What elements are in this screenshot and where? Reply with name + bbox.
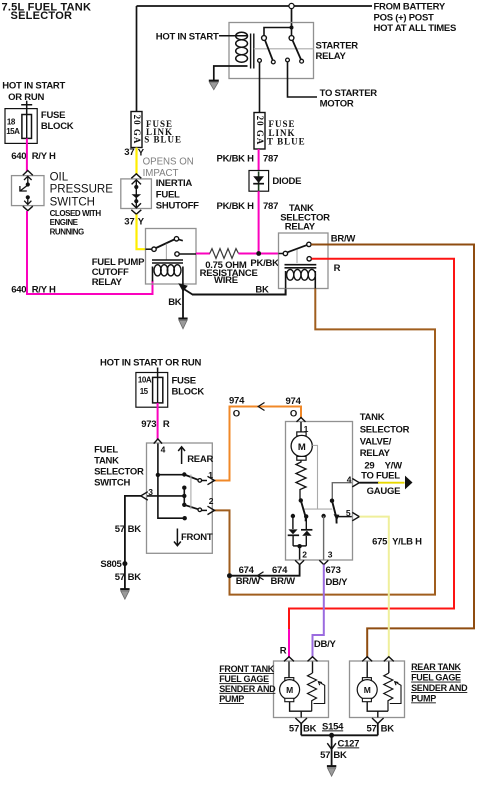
contact circle fixed R (selector relay) bbox=[307, 257, 311, 261]
fuse link F1 box (20 GA S BLUE) bbox=[131, 112, 142, 148]
label FUSE LINK S BLUE bbox=[144, 119, 182, 144]
svg-text:PRESSURE: PRESSURE bbox=[50, 184, 114, 196]
wire BK diagonal bbox=[183, 289, 193, 295]
wire 974 O feed (orange) bbox=[215, 407, 302, 481]
wire feed branch to blade 1 bbox=[158, 474, 184, 476]
svg-text:640: 640 bbox=[11, 284, 26, 295]
svg-text:15A: 15A bbox=[6, 127, 20, 136]
svg-text:674: 674 bbox=[239, 565, 255, 576]
svg-text:R: R bbox=[163, 419, 170, 430]
front sender wiper arrow bbox=[314, 682, 325, 704]
svg-text:10A: 10A bbox=[138, 376, 152, 385]
wire PK/BK output (magenta) to resistor bbox=[196, 253, 210, 255]
svg-text:DIODE: DIODE bbox=[272, 176, 301, 187]
contact circle (cutoff relay feed) bbox=[152, 247, 156, 251]
svg-text:REAR TANK: REAR TANK bbox=[411, 662, 461, 672]
connector chevron pin 5 bbox=[352, 512, 359, 520]
svg-text:SELECTOR: SELECTOR bbox=[11, 10, 73, 22]
svg-text:O: O bbox=[233, 409, 240, 420]
label 37 Y (upper) bbox=[124, 147, 144, 159]
svg-text:HOT IN START: HOT IN START bbox=[156, 31, 219, 42]
wire 973 R fuse to selector switch (magenta) bbox=[157, 403, 159, 440]
rear tank box bbox=[350, 661, 405, 718]
svg-text:57: 57 bbox=[320, 750, 330, 761]
switch blade (selector relay) bbox=[287, 245, 306, 252]
fuse block 2 box bbox=[136, 373, 168, 408]
wire tee to contact 2 bbox=[291, 28, 293, 36]
fuse block 1 box bbox=[5, 109, 37, 144]
wire 640 oil switch to cutoff relay coil (magenta) bbox=[27, 211, 153, 294]
wire BK ground branch bbox=[182, 290, 184, 318]
label 18 15A bbox=[6, 118, 20, 137]
wire relay armature link (gray) bbox=[254, 48, 314, 50]
svg-text:HOT IN START: HOT IN START bbox=[2, 81, 65, 92]
resistor (valve coil) zigzag bbox=[296, 460, 306, 500]
wire coil bottom lead bbox=[214, 66, 248, 80]
wire R red loop to front tank bbox=[289, 259, 454, 630]
valve blade right contact wedge bbox=[334, 514, 340, 520]
contact stub (cutoff relay fixed) bbox=[179, 240, 183, 241]
valve switch blade right bbox=[332, 501, 337, 524]
svg-text:FRONT: FRONT bbox=[181, 532, 213, 543]
tank selector relay K2 box bbox=[279, 233, 329, 289]
label 57 BK (rear) bbox=[367, 724, 395, 735]
label FRONT TANK FUEL GAGE SENDER AND PUMP bbox=[219, 664, 276, 704]
svg-text:675: 675 bbox=[372, 537, 388, 548]
node dot feed bbox=[156, 473, 160, 477]
wire rail to pin 2 (valve) bbox=[299, 546, 301, 559]
node contact dot left diode branch bbox=[291, 514, 295, 518]
svg-text:BK: BK bbox=[168, 297, 182, 308]
svg-text:SWITCH: SWITCH bbox=[94, 478, 130, 489]
svg-text:PUMP: PUMP bbox=[411, 693, 436, 703]
node valve blade pivot left bbox=[299, 498, 303, 502]
connector C127 chevron bbox=[327, 743, 336, 749]
svg-text:FUEL: FUEL bbox=[94, 445, 118, 456]
connector chevron (rear tank bottom) bbox=[372, 718, 384, 724]
svg-text:PK/BK H: PK/BK H bbox=[216, 201, 254, 212]
node dot bar top bbox=[182, 486, 186, 490]
wire 29 Y/W to fuel gauge bbox=[360, 476, 413, 490]
wire rear tank to S154 rail bbox=[377, 724, 379, 736]
wire armature link gray (selector relay) bbox=[296, 250, 298, 264]
wire stub to contact (selector relay) bbox=[279, 253, 284, 255]
wire battery feed top bbox=[137, 5, 373, 7]
svg-text:FROM BATTERY: FROM BATTERY bbox=[374, 1, 446, 12]
svg-text:PUMP: PUMP bbox=[219, 694, 244, 704]
svg-text:TANK: TANK bbox=[94, 456, 119, 467]
svg-text:R/Y H: R/Y H bbox=[32, 151, 56, 162]
svg-text:SELECTOR: SELECTOR bbox=[360, 425, 410, 436]
connector chevron (inertia bottom) bbox=[131, 210, 141, 214]
wire front pump feed bbox=[288, 662, 290, 678]
svg-text:4: 4 bbox=[161, 445, 166, 455]
svg-text:BR/W: BR/W bbox=[236, 576, 261, 587]
label 29 Y/W bbox=[364, 461, 402, 472]
svg-text:PK/BK H: PK/BK H bbox=[216, 153, 254, 164]
svg-text:57: 57 bbox=[289, 724, 299, 735]
label FUSE BLOCK 2 bbox=[172, 376, 205, 398]
wire front sender feed bbox=[312, 662, 314, 674]
contact circle upper 1 bbox=[262, 36, 267, 41]
svg-text:ENGINE: ENGINE bbox=[50, 218, 79, 227]
switch blade (cutoff relay) bbox=[156, 240, 174, 249]
wire R magenta tail at front tank bbox=[288, 629, 290, 658]
svg-text:673: 673 bbox=[326, 565, 341, 576]
svg-text:FUEL GAGE: FUEL GAGE bbox=[411, 673, 461, 683]
wire pin 3 to S805 ground bbox=[125, 496, 142, 589]
fuel tank selector switch S3 box bbox=[147, 443, 213, 553]
svg-text:57: 57 bbox=[115, 572, 125, 583]
label STARTER RELAY bbox=[316, 41, 359, 62]
svg-text:57: 57 bbox=[115, 524, 125, 535]
wire HOT IN START lead to coil bbox=[219, 35, 248, 37]
node dot blade 1 pivot bbox=[182, 472, 186, 476]
label FRONT with arrow bbox=[174, 529, 213, 546]
connector chevron (oil switch top) bbox=[23, 171, 33, 176]
wire valve feed to motor bbox=[300, 422, 302, 432]
svg-text:640: 640 bbox=[11, 151, 26, 162]
svg-text:M: M bbox=[364, 685, 371, 695]
svg-text:15: 15 bbox=[140, 387, 149, 396]
motor M2 (front pump) bbox=[280, 678, 300, 702]
wire coil left lead (selector relay) bbox=[285, 271, 287, 289]
node S154 splice bbox=[329, 733, 334, 738]
svg-text:973: 973 bbox=[141, 419, 156, 430]
wire rear sender feed bbox=[388, 662, 390, 674]
svg-text:BLOCK: BLOCK bbox=[41, 121, 74, 132]
connector chevron (oil switch bottom) bbox=[23, 206, 33, 211]
svg-text:RELAY: RELAY bbox=[360, 448, 391, 459]
node relay feed tee bbox=[290, 26, 294, 30]
node dot L end bbox=[183, 516, 187, 520]
svg-text:CLOSED WITH: CLOSED WITH bbox=[50, 209, 102, 218]
svg-text:2: 2 bbox=[302, 550, 307, 560]
diode CR3 (right, pointing up) bbox=[301, 516, 312, 546]
connector chevron pin 4 bbox=[352, 479, 359, 487]
diode CR2 (left, pointing down) bbox=[288, 529, 299, 535]
wire 37 Y fuse link to inertia switch (yellow) bbox=[135, 148, 137, 176]
label INERTIA FUEL SHUTOFF bbox=[156, 178, 199, 211]
svg-text:POS (+) POST: POS (+) POST bbox=[374, 13, 435, 24]
wire coil right lead (selector relay) bbox=[314, 271, 316, 289]
svg-text:RELAY: RELAY bbox=[92, 277, 123, 288]
svg-text:GAUGE: GAUGE bbox=[367, 486, 401, 497]
svg-text:FUEL: FUEL bbox=[156, 189, 180, 200]
svg-text:BLOCK: BLOCK bbox=[172, 386, 205, 397]
terminal circle 1 bbox=[258, 59, 262, 63]
title bbox=[2, 1, 92, 22]
wire blade1 to pin 1 bbox=[202, 480, 208, 482]
label FROM BATTERY bbox=[374, 1, 457, 34]
switch blade 2 (FRONT) bbox=[184, 505, 198, 509]
resistor rear sender zigzag bbox=[384, 673, 393, 711]
tank selector valve/relay box bbox=[286, 422, 353, 561]
svg-text:TANK: TANK bbox=[360, 412, 385, 423]
oil pressure switch symbol bbox=[20, 176, 32, 204]
connector chevron (rear tank pin Y/LB) bbox=[384, 657, 394, 662]
svg-text:TO FUEL: TO FUEL bbox=[361, 471, 400, 482]
label PK/BK H 787 (lower) bbox=[216, 201, 278, 212]
node dot bar mid bbox=[182, 494, 186, 498]
label 974 O (right) bbox=[286, 396, 302, 419]
resistor front sender zigzag bbox=[308, 673, 317, 711]
connector chevron (inertia top) bbox=[131, 174, 141, 179]
svg-text:S805: S805 bbox=[100, 559, 122, 570]
label 675 Y/LB H bbox=[372, 537, 422, 548]
starter relay coil bbox=[236, 32, 254, 68]
svg-text:18: 18 bbox=[7, 118, 16, 127]
ground (cutoff relay) bbox=[178, 319, 187, 329]
rear sender wiper arrow bbox=[390, 682, 401, 704]
svg-text:C127: C127 bbox=[338, 738, 360, 749]
motor M3 (rear pump) bbox=[357, 678, 377, 702]
diode CR1 box bbox=[249, 171, 269, 192]
wire S154 ground rail bbox=[301, 734, 378, 736]
contact circle output (cutoff relay) bbox=[175, 252, 179, 256]
ground (C127) bbox=[327, 766, 336, 776]
wire switch link gray bbox=[190, 475, 192, 510]
wire 675 Y/LB to rear tank (pale yellow) bbox=[360, 517, 389, 658]
svg-text:SWITCH: SWITCH bbox=[50, 197, 95, 209]
blade 1 tip circle bbox=[271, 60, 275, 64]
label FUSE BLOCK 1 bbox=[41, 110, 74, 132]
wire feed into fuse block 2 bbox=[157, 368, 159, 378]
node dot bar bottom bbox=[182, 503, 186, 507]
wire 673 DB/Y valve pin3 to front tank (violet) bbox=[313, 565, 324, 659]
node contact dot right diode branch bbox=[304, 514, 308, 518]
svg-text:WIRE: WIRE bbox=[214, 275, 238, 286]
coil loops (cutoff relay) bbox=[154, 265, 181, 276]
inertia fuel shutoff S2 box bbox=[121, 179, 152, 209]
label 674 BR/W (right) bbox=[271, 565, 296, 587]
label REAR with arrow bbox=[178, 447, 213, 465]
node 674 junction bbox=[227, 573, 232, 578]
svg-text:INERTIA: INERTIA bbox=[156, 178, 193, 189]
wire 37 Y inertia to cutoff relay (yellow) bbox=[137, 215, 147, 250]
svg-text:RELAY: RELAY bbox=[316, 51, 347, 62]
svg-text:674: 674 bbox=[272, 565, 288, 576]
svg-text:VALVE/: VALVE/ bbox=[360, 437, 392, 448]
svg-text:1: 1 bbox=[208, 470, 213, 480]
wire starter relay to fuse link T bbox=[259, 63, 261, 113]
svg-text:FRONT TANK: FRONT TANK bbox=[219, 664, 275, 674]
arrow on 974 wire bbox=[258, 403, 264, 411]
fuse F3 symbol bbox=[153, 377, 163, 403]
label OPENS ON IMPACT bbox=[143, 156, 194, 179]
svg-text:BK: BK bbox=[128, 572, 142, 583]
label HOT IN START OR RUN (left) bbox=[2, 81, 65, 104]
connector chevron (front tank pin DB/Y) bbox=[308, 657, 318, 662]
svg-text:R: R bbox=[334, 263, 341, 274]
label 57 BK (bottom) bbox=[320, 750, 347, 761]
label 37 Y (lower) bbox=[124, 217, 144, 228]
diode CR1 symbol bbox=[253, 172, 264, 191]
connector chevron (front tank pin R) bbox=[284, 657, 294, 662]
connector chevron pin 3 (left) bbox=[141, 492, 148, 500]
label REAR TANK FUEL GAGE SENDER AND PUMP bbox=[411, 662, 468, 703]
wire to starter motor bbox=[288, 62, 318, 97]
arrow on 674 wire bbox=[257, 572, 263, 580]
label 10A 15 bbox=[138, 376, 152, 397]
label 57 BK (pin3) bbox=[115, 524, 142, 535]
wire front tank bottom rail bbox=[290, 702, 312, 718]
connector chevron (valve top) bbox=[297, 418, 306, 422]
label TANK SELECTOR RELAY bbox=[280, 203, 330, 233]
wire left diode to rail bbox=[292, 536, 294, 546]
svg-text:O: O bbox=[290, 408, 297, 419]
svg-text:RUNNING: RUNNING bbox=[50, 228, 84, 237]
svg-text:PK/BK: PK/BK bbox=[250, 258, 279, 269]
fuse link F2 box (20 GA T BLUE) bbox=[254, 113, 265, 150]
blade 2 tip circle bbox=[300, 59, 304, 63]
connector chevron (rear tank pin BR/W) bbox=[362, 657, 372, 662]
svg-text:OIL: OIL bbox=[50, 171, 69, 183]
svg-text:SENDER AND: SENDER AND bbox=[411, 683, 468, 693]
svg-text:Y/LB H: Y/LB H bbox=[392, 537, 422, 548]
wire blade2 to pin 2 bbox=[202, 509, 208, 511]
svg-text:MOTOR: MOTOR bbox=[320, 98, 354, 109]
connector chevron pin 2 bbox=[208, 506, 215, 514]
ground (starter relay coil) bbox=[209, 81, 219, 90]
svg-text:HOT IN START OR RUN: HOT IN START OR RUN bbox=[100, 358, 202, 369]
svg-text:20 GA: 20 GA bbox=[255, 116, 265, 146]
wire BR/W brown loop to rear tank bbox=[311, 245, 474, 659]
label FUEL TANK SELECTOR SWITCH bbox=[94, 445, 144, 489]
svg-text:Y: Y bbox=[138, 217, 145, 228]
svg-text:20 GA: 20 GA bbox=[132, 115, 142, 145]
label FUEL PUMP CUTOFF RELAY bbox=[92, 257, 145, 288]
resistor 0.75 ohm zigzag bbox=[210, 249, 239, 259]
wire feed into fuse block 1 bbox=[21, 101, 32, 115]
svg-text:974: 974 bbox=[229, 396, 245, 407]
label TANK SELECTOR VALVE/RELAY bbox=[360, 412, 410, 459]
wire pin 3 to bar bbox=[147, 495, 184, 497]
label 640 R/Y H (lower) bbox=[11, 284, 56, 295]
label 57 BK (below S805) bbox=[115, 572, 142, 583]
svg-text:T BLUE: T BLUE bbox=[267, 137, 306, 147]
label 57 BK (front) bbox=[289, 724, 317, 735]
coil core (cutoff relay) bbox=[152, 260, 183, 263]
label 0.75 OHM RESISTANCE WIRE bbox=[200, 260, 258, 286]
wire 640 R/Y fuse to oil switch (magenta) bbox=[26, 138, 28, 171]
label 673 DB/Y bbox=[326, 565, 349, 588]
svg-text:BK: BK bbox=[381, 724, 395, 735]
svg-text:BK: BK bbox=[128, 524, 142, 535]
fuse F1 symbol bbox=[22, 115, 32, 139]
coil loops (selector relay) bbox=[287, 269, 316, 280]
svg-text:BK: BK bbox=[333, 750, 347, 761]
svg-text:SELECTOR: SELECTOR bbox=[94, 467, 144, 478]
connector chevron (valve pin 2 bottom) bbox=[295, 560, 304, 564]
wire rear pump feed bbox=[366, 662, 368, 678]
wire BK to tank selector relay coil bbox=[192, 289, 286, 295]
node valve blade pivot right bbox=[330, 499, 334, 503]
svg-text:OPENS ON: OPENS ON bbox=[143, 156, 194, 167]
fuel pump cutoff relay K1 box bbox=[146, 229, 197, 285]
node diode rail junction bbox=[297, 544, 301, 548]
wire stub to contact (cutoff relay) bbox=[146, 248, 152, 250]
connector chevron (valve pin 3 bottom) bbox=[319, 560, 328, 564]
switch blade 2 bbox=[293, 40, 301, 59]
svg-text:RELAY: RELAY bbox=[285, 222, 316, 233]
svg-text:2: 2 bbox=[209, 496, 214, 506]
node contact dot pin3 branch bbox=[321, 514, 325, 518]
svg-text:R: R bbox=[280, 646, 287, 657]
label PK/BK H 787 (upper) bbox=[216, 153, 278, 164]
wire diode rail bbox=[293, 545, 306, 547]
svg-text:BR/W: BR/W bbox=[331, 234, 356, 245]
svg-text:57: 57 bbox=[367, 724, 377, 735]
blade 1 tip circle bbox=[198, 479, 202, 483]
svg-text:3: 3 bbox=[328, 550, 333, 560]
svg-text:SENDER AND: SENDER AND bbox=[219, 684, 276, 694]
svg-text:SHUTOFF: SHUTOFF bbox=[156, 201, 199, 212]
contact circle fixed (cutoff relay) bbox=[174, 237, 178, 241]
svg-text:4: 4 bbox=[347, 475, 352, 485]
wire front tank to S154 rail bbox=[300, 724, 302, 736]
front tank box bbox=[274, 661, 329, 718]
wire coil left lead (cutoff relay) bbox=[152, 267, 154, 282]
wire left drop to fuse link S bbox=[136, 6, 138, 112]
svg-text:S154: S154 bbox=[322, 721, 344, 732]
starter relay U1 box bbox=[229, 23, 314, 79]
svg-text:787: 787 bbox=[263, 201, 278, 212]
wire pin 3 gray drop (valve) bbox=[323, 516, 325, 560]
svg-text:37: 37 bbox=[124, 147, 134, 158]
node S805 splice bbox=[122, 561, 127, 566]
wire 674 selector relay coil brown loop bbox=[213, 289, 435, 595]
wire contact to box edge (cutoff relay output) bbox=[179, 253, 196, 255]
label 974 O (left) bbox=[229, 396, 245, 420]
connector chevron pin 1 bbox=[208, 476, 215, 484]
svg-text:M: M bbox=[298, 442, 306, 453]
wire left diode branch bbox=[292, 516, 294, 529]
wire pin 5 stub bbox=[338, 516, 352, 518]
svg-text:FUEL GAGE: FUEL GAGE bbox=[219, 674, 269, 684]
svg-text:DB/Y: DB/Y bbox=[326, 577, 349, 588]
wire PK/BK fuse link to diode (magenta) bbox=[258, 149, 260, 171]
label 674 BR/W (left) bbox=[236, 565, 261, 587]
svg-text:787: 787 bbox=[263, 153, 278, 164]
svg-text:37: 37 bbox=[124, 217, 134, 228]
wire rear tank bottom rail bbox=[367, 702, 388, 718]
wire contact bar vertical bbox=[183, 488, 185, 505]
label 973 R bbox=[141, 419, 170, 430]
svg-text:BK: BK bbox=[255, 285, 269, 296]
contact circle feed (selector relay) bbox=[283, 251, 287, 255]
switch blade 1 (REAR) bbox=[184, 475, 198, 480]
svg-text:FUSE: FUSE bbox=[41, 110, 65, 121]
svg-text:REAR: REAR bbox=[187, 454, 213, 465]
oil pressure switch S1 box bbox=[12, 176, 45, 206]
blade 2 tip circle bbox=[198, 508, 202, 512]
wire tee to contact 1 bbox=[264, 28, 292, 36]
contact circle fixed BR/W (selector relay) bbox=[307, 242, 311, 246]
wire armature link gray (cutoff relay) bbox=[165, 244, 167, 260]
wire diode to PK/BK node (magenta) bbox=[258, 191, 260, 252]
label OIL PRESSURE SWITCH bbox=[50, 171, 114, 208]
wire switch feed vertical bbox=[158, 444, 185, 519]
svg-text:BK: BK bbox=[303, 724, 317, 735]
wire pin 4 to right blade pivot bbox=[332, 483, 352, 501]
svg-text:DB/Y: DB/Y bbox=[314, 639, 337, 650]
inertia switch symbol bbox=[132, 180, 142, 208]
label 640 R/Y H (upper) bbox=[11, 151, 56, 162]
connector chevron (front tank bottom) bbox=[295, 718, 307, 724]
node BK junction arrow bbox=[178, 283, 188, 292]
svg-text:S BLUE: S BLUE bbox=[144, 135, 182, 145]
